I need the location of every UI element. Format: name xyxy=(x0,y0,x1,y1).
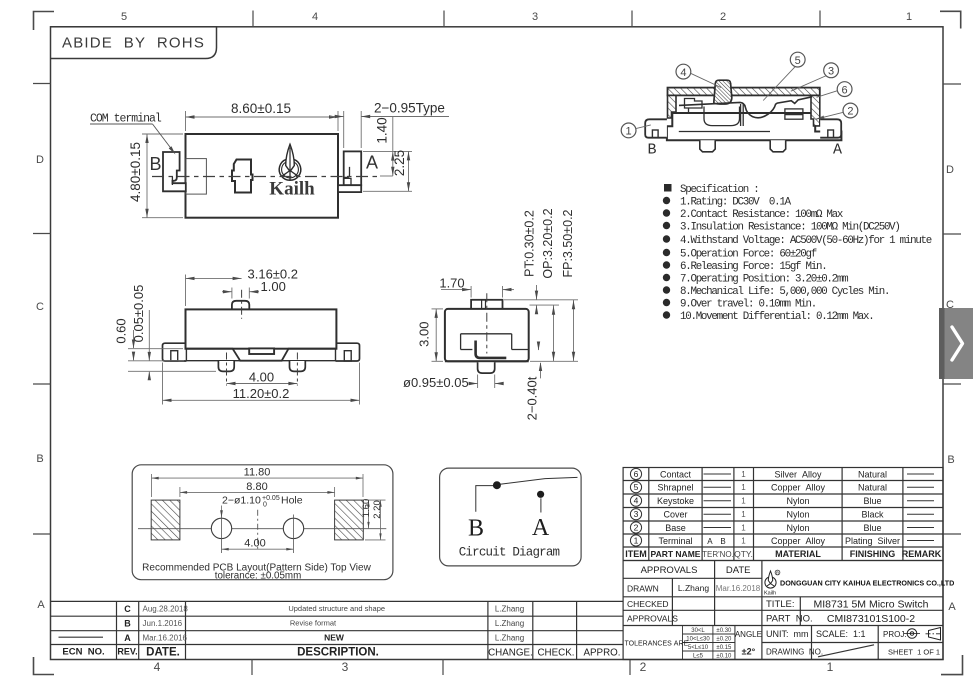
svg-text:10.Movement Differential: 0.12: 10.Movement Differential: 0.12mm Max. xyxy=(680,311,873,323)
balloon 2 xyxy=(843,103,858,118)
plunger centerline xyxy=(241,290,243,319)
rev header row xyxy=(62,647,620,659)
svg-text:DATE: DATE xyxy=(726,565,751,576)
svg-text:tolerance: ±0.05mm: tolerance: ±0.05mm xyxy=(215,571,302,582)
svg-text:±0.10: ±0.10 xyxy=(716,654,732,660)
peg centerlines xyxy=(226,353,228,386)
svg-text:MATERIAL: MATERIAL xyxy=(775,549,821,559)
svg-text:1: 1 xyxy=(741,510,746,519)
svg-text:Plating Silver: Plating Silver xyxy=(845,536,900,546)
svg-text:DRAWING NO.: DRAWING NO. xyxy=(766,648,823,657)
svg-text:5: 5 xyxy=(795,55,801,67)
terminal A (section) xyxy=(820,119,841,137)
hole right xyxy=(283,518,303,538)
cover right wall (hatched) xyxy=(811,95,820,126)
svg-text:DATE.: DATE. xyxy=(146,647,180,659)
svg-text:CHECKED: CHECKED xyxy=(627,599,669,609)
svg-text:L.Zhang: L.Zhang xyxy=(495,634,524,643)
svg-text:Keystoke: Keystoke xyxy=(657,496,694,506)
drawing no. diagonal line xyxy=(818,645,874,657)
svg-text:ø0.95±0.05: ø0.95±0.05 xyxy=(403,375,469,390)
svg-text:A: A xyxy=(124,633,131,643)
svg-text:Revise format: Revise format xyxy=(290,619,337,628)
svg-text:DESCRIPTION.: DESCRIPTION. xyxy=(297,647,379,659)
svg-text:2.25: 2.25 xyxy=(392,150,407,176)
svg-text:10<L≤30: 10<L≤30 xyxy=(686,637,710,643)
svg-text:2: 2 xyxy=(640,660,647,674)
bottom pegs (section) xyxy=(700,140,715,152)
svg-text:A: A xyxy=(532,515,550,541)
svg-text:QTY.: QTY. xyxy=(734,549,753,559)
svg-text:2: 2 xyxy=(847,106,853,118)
svg-text:11.20±0.2: 11.20±0.2 xyxy=(233,386,290,401)
svg-text:Nylon: Nylon xyxy=(786,496,809,506)
plunger xyxy=(232,301,249,310)
svg-text:Hole: Hole xyxy=(281,495,303,507)
svg-text:B: B xyxy=(124,619,131,629)
terminal B (section) xyxy=(645,119,667,137)
svg-text:0.60: 0.60 xyxy=(114,318,129,343)
mold hole detail xyxy=(232,160,253,193)
zone letters left xyxy=(36,154,45,611)
svg-text:8.80: 8.80 xyxy=(246,481,267,493)
right zone ticks xyxy=(943,84,961,534)
top zone ticks xyxy=(253,11,820,27)
A contact dot xyxy=(537,491,544,498)
svg-text:ANGLE: ANGLE xyxy=(735,630,762,639)
svg-text:TER'NO.: TER'NO. xyxy=(702,550,734,559)
dim 2-0.95Type xyxy=(330,111,449,148)
svg-text:C: C xyxy=(36,301,44,313)
plunger (hatched) xyxy=(714,80,732,104)
svg-text:4.80±0.15: 4.80±0.15 xyxy=(128,142,143,202)
svg-text:4.Withstand Voltage: AC500V(50: 4.Withstand Voltage: AC500V(50-60Hz)for … xyxy=(680,235,932,247)
dim 1.00 xyxy=(222,288,259,299)
svg-text:B: B xyxy=(947,454,954,466)
svg-text:Nylon: Nylon xyxy=(786,510,809,520)
bottom zone ticks xyxy=(252,660,630,676)
svg-text:Nylon: Nylon xyxy=(786,523,809,533)
dim 4.80±0.15 xyxy=(142,134,183,218)
svg-text:A: A xyxy=(366,153,378,173)
svg-text:APPROVALS: APPROVALS xyxy=(627,614,678,624)
svg-text:B: B xyxy=(647,142,656,159)
terminal hook (end) xyxy=(476,341,507,358)
dim 1.40 xyxy=(380,117,393,176)
svg-text:UNIT: mm: UNIT: mm xyxy=(766,629,809,639)
svg-text:1: 1 xyxy=(741,497,746,506)
svg-text:Blue: Blue xyxy=(863,496,881,506)
title area xyxy=(766,599,940,657)
dim 4.00 (pcb) xyxy=(222,548,294,550)
dim 11.80 xyxy=(152,474,364,497)
svg-text:5: 5 xyxy=(121,11,127,23)
qty column xyxy=(741,470,746,546)
svg-text:Updated structure and shape: Updated structure and shape xyxy=(288,604,385,613)
svg-text:REMARK: REMARK xyxy=(902,549,942,559)
svg-text:Base: Base xyxy=(665,523,686,533)
ter.no dashes xyxy=(704,474,732,528)
svg-text:APPROVALS: APPROVALS xyxy=(641,565,698,576)
svg-text:B: B xyxy=(468,516,484,542)
balloon 3 xyxy=(824,63,839,78)
switch blade xyxy=(500,477,578,484)
svg-text:4: 4 xyxy=(634,496,639,506)
svg-text:6: 6 xyxy=(634,469,639,479)
body (end) xyxy=(445,309,529,361)
svg-text:2.20: 2.20 xyxy=(372,500,383,519)
svg-text:L.Zhang: L.Zhang xyxy=(495,605,524,614)
svg-text:D: D xyxy=(36,154,44,166)
leaf spring xyxy=(679,97,812,118)
B contact dot xyxy=(493,481,501,489)
svg-text:Shrapnel: Shrapnel xyxy=(657,483,693,493)
svg-text:A B: A B xyxy=(707,537,728,546)
svg-text:1.70: 1.70 xyxy=(439,276,464,291)
svg-text:1: 1 xyxy=(626,126,632,138)
projection symbol xyxy=(904,628,943,641)
A lead xyxy=(540,498,542,512)
dim 2.25 xyxy=(363,151,412,191)
svg-text:8.Mechanical Life: 5,000,000 C: 8.Mechanical Life: 5,000,000 Cycles Min. xyxy=(680,286,889,298)
svg-text:9.Over travel: 0.10mm Min.: 9.Over travel: 0.10mm Min. xyxy=(680,299,816,311)
svg-text:1.60: 1.60 xyxy=(361,499,372,518)
svg-text:±0.30: ±0.30 xyxy=(716,628,732,634)
svg-text:Blue: Blue xyxy=(863,523,881,533)
base body xyxy=(667,113,842,140)
balloon 5 xyxy=(790,52,805,67)
svg-text:3: 3 xyxy=(342,660,349,674)
svg-text:C: C xyxy=(124,604,131,614)
svg-text:0: 0 xyxy=(263,501,267,508)
bottom line (end) xyxy=(445,360,529,362)
svg-text:L≤5: L≤5 xyxy=(693,654,704,660)
svg-text:Kailh: Kailh xyxy=(269,179,315,200)
svg-text:TOLERANCES ARE: TOLERANCES ARE xyxy=(625,641,689,648)
dim 3.00 xyxy=(432,309,444,361)
zone numbers bottom xyxy=(154,660,834,674)
svg-text:Black: Black xyxy=(861,510,884,520)
bottom pegs xyxy=(218,361,234,371)
svg-text:Contact: Contact xyxy=(660,469,692,479)
svg-text:PART NO.: PART NO. xyxy=(766,614,813,625)
dims 0.60 / 0.05±0.05 xyxy=(128,310,216,377)
svg-text:NEW: NEW xyxy=(324,633,345,643)
kailh logo (title block) xyxy=(765,571,776,588)
svg-text:6: 6 xyxy=(842,84,848,96)
svg-text:3: 3 xyxy=(634,509,639,519)
svg-text:1: 1 xyxy=(827,660,834,674)
dims 1.60 / 2.20 xyxy=(365,500,386,540)
dim 4.00 (side) xyxy=(227,383,298,385)
svg-text:A: A xyxy=(948,601,956,613)
dim 1.70 xyxy=(441,286,514,298)
svg-text:FP:3.50±0.2: FP:3.50±0.2 xyxy=(561,209,575,277)
svg-text:ABIDE BY ROHS: ABIDE BY ROHS xyxy=(62,35,205,52)
svg-text:1: 1 xyxy=(741,470,746,479)
side terminals xyxy=(163,343,187,361)
svg-text:REV.: REV. xyxy=(117,647,137,657)
svg-text:5<L≤10: 5<L≤10 xyxy=(688,645,709,651)
body xyxy=(186,309,337,348)
gray next-page overlay button xyxy=(939,308,973,379)
svg-text:B: B xyxy=(149,154,161,174)
part names xyxy=(657,469,694,546)
base top shelf line xyxy=(676,112,812,114)
svg-text:±2°: ±2° xyxy=(742,647,756,657)
zone numbers top xyxy=(121,11,912,23)
svg-text:1.Rating: DC30V 0.1A: 1.Rating: DC30V 0.1A xyxy=(680,197,792,209)
dim 8.60±0.15 xyxy=(186,111,339,131)
svg-text:SCALE: 1:1: SCALE: 1:1 xyxy=(816,629,866,639)
dim ø0.95±0.05 xyxy=(470,375,502,389)
svg-text:5.Operation Force: 60±20gf: 5.Operation Force: 60±20gf xyxy=(680,249,817,261)
svg-text:Silver Alloy: Silver Alloy xyxy=(774,469,822,479)
svg-text:Circuit Diagram: Circuit Diagram xyxy=(459,546,560,560)
B lead xyxy=(476,486,493,512)
svg-text:A: A xyxy=(833,142,842,159)
svg-text:Copper Alloy: Copper Alloy xyxy=(771,483,826,493)
horizontal centerline xyxy=(138,528,386,530)
balloon 6 xyxy=(837,82,852,97)
svg-text:3.00: 3.00 xyxy=(417,322,432,347)
svg-text:L.Zhang: L.Zhang xyxy=(495,619,524,628)
svg-text:FINISHING: FINISHING xyxy=(850,549,896,559)
approvals area text xyxy=(625,565,762,657)
svg-text:6.Releasing Force: 15gf Min.: 6.Releasing Force: 15gf Min. xyxy=(680,261,826,273)
svg-text:Jun.1.2016: Jun.1.2016 xyxy=(143,619,183,628)
terminal B slot (thin) xyxy=(186,159,206,195)
parts table header row xyxy=(625,549,941,559)
svg-text:4.00: 4.00 xyxy=(244,538,265,550)
svg-text:Cover: Cover xyxy=(663,510,687,520)
svg-text:DRAWN: DRAWN xyxy=(627,584,659,594)
left pad (hatched) xyxy=(151,500,180,540)
body xyxy=(186,134,339,218)
svg-text:2: 2 xyxy=(634,523,639,533)
svg-text:±0.15: ±0.15 xyxy=(716,645,732,651)
svg-text:3: 3 xyxy=(828,66,834,78)
centerline (end) xyxy=(486,293,488,353)
svg-text:2−ø1.10: 2−ø1.10 xyxy=(222,495,261,507)
remark dashes xyxy=(907,474,934,541)
svg-text:2.Contact Resistance: 100mΩ Ma: 2.Contact Resistance: 100mΩ Max xyxy=(680,209,843,221)
svg-text:MI8731 5M Micro Switch: MI8731 5M Micro Switch xyxy=(814,599,929,611)
svg-text:Kailh: Kailh xyxy=(764,591,776,597)
svg-text:±0.20: ±0.20 xyxy=(716,637,732,643)
centerline xyxy=(152,176,380,178)
svg-text:1: 1 xyxy=(741,524,746,533)
cover top bar (hatched) xyxy=(668,88,820,96)
tolerance mini-table xyxy=(683,626,735,660)
dim 8.80 xyxy=(180,487,335,497)
svg-text:CHANGE.: CHANGE. xyxy=(488,648,533,659)
balloon 4 xyxy=(676,64,691,79)
svg-text:PT:0.30±0.2: PT:0.30±0.2 xyxy=(523,210,537,277)
cover left wall (hatched) xyxy=(668,95,677,118)
svg-text:ECN NO.: ECN NO. xyxy=(62,647,104,658)
svg-text:APPRO.: APPRO. xyxy=(583,648,620,659)
svg-text:Copper Alloy: Copper Alloy xyxy=(771,536,826,546)
svg-text:Terminal: Terminal xyxy=(658,536,692,546)
svg-text:OP:3.20±0.2: OP:3.20±0.2 xyxy=(541,208,555,278)
svg-text:CHECK.: CHECK. xyxy=(537,648,574,659)
svg-text:4: 4 xyxy=(154,660,161,674)
zone letters right xyxy=(946,164,956,613)
svg-text:2−0.40t: 2−0.40t xyxy=(525,376,540,420)
material column xyxy=(771,469,826,546)
svg-text:Mar.16.2018: Mar.16.2018 xyxy=(716,584,761,593)
svg-text:2−0.95Type: 2−0.95Type xyxy=(374,101,445,116)
svg-text:5: 5 xyxy=(634,482,639,492)
vertical center dash xyxy=(257,510,259,550)
svg-text:A: A xyxy=(37,599,45,611)
svg-text:7.Operating Position: 3.20±0.2: 7.Operating Position: 3.20±0.2mm xyxy=(680,274,848,286)
svg-text:30<L: 30<L xyxy=(691,628,705,634)
svg-text:3: 3 xyxy=(532,11,538,23)
svg-text:ITEM: ITEM xyxy=(625,549,647,559)
PT / OP / FP dims xyxy=(504,285,578,361)
terminal B xyxy=(163,152,186,191)
internal molding left xyxy=(679,99,803,132)
svg-text:3.Insulation Resistance: 100MΩ: 3.Insulation Resistance: 100MΩ Min(DC250… xyxy=(680,222,900,234)
svg-text:DONGGUAN CITY KAIHUA ELECTRONI: DONGGUAN CITY KAIHUA ELECTRONICS CO.,LTD xyxy=(780,579,954,588)
svg-text:D: D xyxy=(946,164,954,176)
svg-text:PART NAME: PART NAME xyxy=(651,549,701,559)
terminal A xyxy=(344,151,362,185)
bottom flange xyxy=(186,349,337,361)
balloon 1 xyxy=(621,123,636,138)
svg-text:2: 2 xyxy=(720,11,726,23)
svg-text:Aug.28.2018: Aug.28.2018 xyxy=(143,605,189,614)
svg-text:1: 1 xyxy=(634,536,639,546)
inner lines (end) xyxy=(461,334,528,350)
svg-text:SHEET 1 OF 1: SHEET 1 OF 1 xyxy=(888,648,940,657)
dim 11.20±0.2 xyxy=(163,363,360,405)
svg-text:B: B xyxy=(36,453,43,465)
svg-text:0.05±0.05: 0.05±0.05 xyxy=(131,285,146,343)
svg-text:TITLE:: TITLE: xyxy=(766,599,795,610)
svg-text:1: 1 xyxy=(741,537,746,546)
ABIDE BY ROHS box xyxy=(51,27,217,59)
left zone ticks xyxy=(33,84,51,535)
plunger (end) xyxy=(471,300,502,309)
svg-text:L.Zhang: L.Zhang xyxy=(678,583,709,593)
svg-text:1.00: 1.00 xyxy=(261,279,286,294)
svg-text:1: 1 xyxy=(741,483,746,492)
finishing column xyxy=(845,469,900,546)
svg-text:1: 1 xyxy=(906,11,912,23)
item number balloons xyxy=(630,468,641,546)
center slot xyxy=(249,348,274,354)
svg-text:1.40: 1.40 xyxy=(375,117,390,143)
svg-text:11.80: 11.80 xyxy=(244,467,271,479)
hole left xyxy=(211,518,231,538)
svg-text:4: 4 xyxy=(680,67,686,79)
svg-text:4: 4 xyxy=(312,11,318,23)
svg-text:CMI873101S100-2: CMI873101S100-2 xyxy=(827,613,915,625)
right pad (hatched) xyxy=(335,500,364,540)
peg (end) xyxy=(478,362,495,373)
Kailh logo (front view) xyxy=(279,144,301,180)
svg-text:Natural: Natural xyxy=(858,469,887,479)
rev rows xyxy=(59,604,525,643)
dim 2-0.40t xyxy=(540,363,542,378)
dim 3.16±0.2 xyxy=(186,275,242,307)
svg-text:8.60±0.15: 8.60±0.15 xyxy=(231,101,291,116)
svg-text:PROJ.: PROJ. xyxy=(883,630,907,639)
svg-text:4.00: 4.00 xyxy=(249,370,274,385)
svg-text:Natural: Natural xyxy=(858,483,887,493)
svg-text:Specification :: Specification : xyxy=(680,184,758,196)
svg-text:Mar.16.2016: Mar.16.2016 xyxy=(143,634,188,643)
